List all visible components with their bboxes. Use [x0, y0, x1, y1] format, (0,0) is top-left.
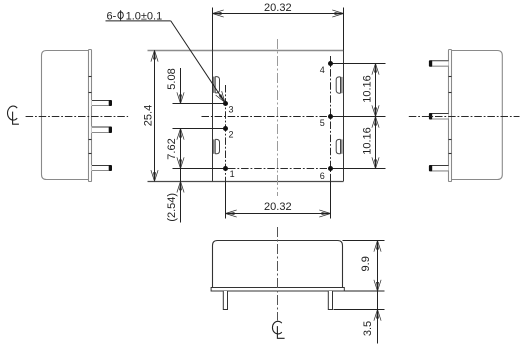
right view pin	[429, 165, 449, 171]
pin hole dot	[328, 61, 333, 66]
svg-text:10.16: 10.16	[362, 127, 374, 155]
svg-text:20.32: 20.32	[264, 201, 292, 213]
svg-text:5.08: 5.08	[166, 68, 178, 89]
horizontal centerline through pin 5	[202, 116, 344, 118]
dim (2.54)	[179, 181, 182, 190]
center body left edge	[212, 50, 214, 181]
pin hole dot	[223, 166, 228, 171]
svg-text:10.16: 10.16	[362, 75, 374, 103]
centerline symbol (left view)	[8, 106, 19, 124]
pin column centerline left	[225, 85, 227, 181]
bottom dim extensions below body	[225, 181, 227, 218]
dim 7.62	[180, 129, 182, 223]
center body bottom edge + 25.4 extension	[148, 181, 344, 183]
front view right pin	[328, 291, 332, 310]
dim top 20.32	[212, 8, 214, 51]
front view body	[213, 241, 343, 288]
boss bracket right lower	[336, 139, 342, 153]
svg-text:3.5: 3.5	[362, 321, 374, 336]
front view flange	[211, 288, 344, 292]
pins 1-6 row centerline	[228, 168, 327, 170]
dim 10.16 lower	[374, 117, 377, 126]
left view pin	[92, 127, 112, 134]
pin row extension lines	[173, 103, 226, 105]
centerline (left view horizontal)	[26, 116, 129, 118]
right view plate ticks	[449, 76, 452, 78]
svg-text:20.32: 20.32	[264, 2, 292, 14]
left view body	[42, 51, 89, 180]
left view pin	[92, 165, 112, 171]
boss bracket right upper	[336, 77, 342, 93]
right view pin	[429, 113, 449, 120]
right view header plate	[449, 50, 452, 182]
pin hole dot	[223, 101, 228, 106]
pin hole dot	[328, 166, 333, 171]
center view body fill	[213, 50, 344, 181]
dim bottom 20.32	[226, 213, 331, 215]
pin hole dot	[223, 126, 228, 131]
svg-text:2: 2	[229, 130, 234, 140]
front view centerline	[277, 227, 279, 321]
svg-text:7.62: 7.62	[166, 138, 178, 159]
left view plate ticks	[89, 76, 92, 78]
front view left pin	[223, 291, 227, 310]
center body top edge + 25.4 extension	[148, 50, 344, 52]
svg-text:1: 1	[230, 169, 235, 179]
left view header plate	[89, 50, 92, 182]
boss bracket left lower	[214, 139, 220, 153]
pin column centerline right	[330, 56, 332, 181]
dim 9.9	[343, 240, 385, 242]
left view pin	[92, 100, 112, 106]
pin hole dot	[328, 114, 333, 119]
svg-text:25.4: 25.4	[142, 105, 154, 126]
boss bracket left upper	[214, 77, 220, 93]
center view vertical centerline (gray)	[277, 39, 279, 196]
dim 10.16 upper	[375, 64, 377, 169]
svg-text:6: 6	[320, 171, 325, 181]
svg-text:4: 4	[320, 65, 325, 75]
right view pin	[429, 60, 449, 66]
centerline symbol (front view)	[272, 321, 284, 338]
svg-text:3: 3	[229, 104, 234, 114]
leader line	[106, 20, 171, 22]
right view body	[452, 51, 503, 180]
center body right edge	[343, 50, 345, 181]
svg-text:9.9: 9.9	[360, 256, 372, 271]
svg-text:(2.54): (2.54)	[166, 193, 178, 222]
centerline (right view horizontal)	[409, 116, 520, 118]
svg-text:5: 5	[320, 118, 325, 128]
dim 5.08	[180, 68, 182, 104]
dim 3.5	[376, 310, 379, 319]
dim 25.4	[154, 50, 156, 181]
